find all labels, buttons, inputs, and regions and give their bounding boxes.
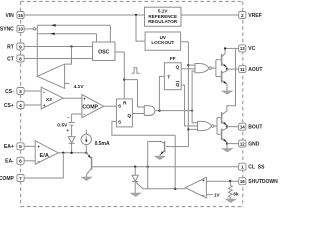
svg-text:VC: VC xyxy=(248,46,255,52)
svg-text:0.5V: 0.5V xyxy=(57,123,68,129)
svg-text:LOCKOUT: LOCKOUT xyxy=(151,40,174,45)
svg-text:VIN: VIN xyxy=(5,13,14,19)
svg-text:COMP: COMP xyxy=(0,176,14,182)
svg-text:X3: X3 xyxy=(46,97,52,103)
svg-text:+: + xyxy=(37,144,40,149)
svg-text:12: 12 xyxy=(240,141,245,146)
svg-text:+: + xyxy=(66,128,69,133)
svg-text:COMP: COMP xyxy=(82,104,98,110)
svg-text:GND: GND xyxy=(248,141,259,147)
svg-text:0.5mA: 0.5mA xyxy=(95,141,110,147)
svg-text:8: 8 xyxy=(19,56,22,62)
svg-text:14: 14 xyxy=(240,124,245,129)
svg-text:+: + xyxy=(83,97,86,102)
svg-text:16: 16 xyxy=(240,179,245,184)
svg-text:FF: FF xyxy=(170,56,176,62)
svg-text:11: 11 xyxy=(240,67,245,72)
svg-text:CL SS: CL SS xyxy=(248,165,265,171)
svg-text:6k: 6k xyxy=(233,191,239,196)
svg-text:R: R xyxy=(123,101,127,107)
svg-text:VREF: VREF xyxy=(248,13,261,19)
svg-text:T: T xyxy=(167,75,170,81)
svg-text:RT: RT xyxy=(7,44,14,50)
svg-text:SYNC: SYNC xyxy=(0,27,14,33)
svg-text:EA-: EA- xyxy=(5,159,14,165)
svg-text:Q: Q xyxy=(176,64,180,70)
svg-text:1: 1 xyxy=(241,164,244,170)
svg-text:CS+: CS+ xyxy=(4,103,14,109)
svg-text:6: 6 xyxy=(19,159,22,165)
svg-text:3: 3 xyxy=(19,89,22,95)
svg-text:OSC: OSC xyxy=(98,49,109,55)
svg-text:15: 15 xyxy=(18,13,23,18)
svg-text:10: 10 xyxy=(18,27,23,32)
svg-text:+: + xyxy=(43,103,46,108)
svg-text:CS-: CS- xyxy=(5,89,14,95)
svg-text:Q: Q xyxy=(176,82,180,88)
svg-text:9: 9 xyxy=(19,44,22,50)
svg-text:E/A: E/A xyxy=(40,153,49,159)
svg-text:SHUTDOWN: SHUTDOWN xyxy=(248,179,278,185)
svg-text:+: + xyxy=(202,178,205,183)
svg-text:13: 13 xyxy=(240,46,245,51)
svg-text:5: 5 xyxy=(19,144,22,150)
svg-text:2: 2 xyxy=(241,13,244,19)
svg-text:4.1V: 4.1V xyxy=(74,84,85,90)
svg-text:REGULATOR: REGULATOR xyxy=(148,19,178,24)
svg-text:Q: Q xyxy=(127,113,131,119)
svg-text:EA+: EA+ xyxy=(4,144,14,150)
svg-text:4: 4 xyxy=(19,103,22,109)
svg-text:1V: 1V xyxy=(214,193,221,198)
svg-text:BOUT: BOUT xyxy=(248,125,262,131)
svg-text:CT: CT xyxy=(7,56,14,62)
svg-text:AOUT: AOUT xyxy=(248,67,262,73)
svg-text:7: 7 xyxy=(19,176,22,182)
